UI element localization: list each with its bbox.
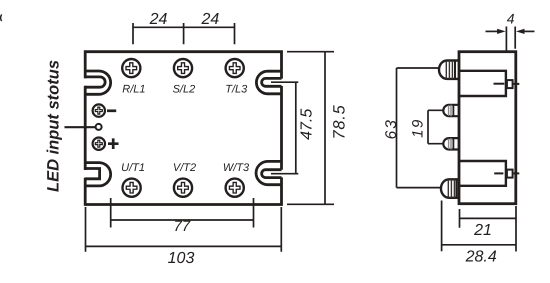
- front view body outline: [85, 52, 281, 205]
- svg-text:R/L1: R/L1: [122, 84, 145, 96]
- mounting slot bottom-right inner: [262, 170, 282, 178]
- svg-text:47.5: 47.5: [298, 109, 315, 140]
- dimension 28.4: [442, 201, 516, 252]
- svg-text:W/T3: W/T3: [223, 162, 250, 174]
- terminal screws front view: [122, 59, 244, 197]
- side terminal 1 (top large): [439, 61, 459, 79]
- mounting slot top-left outer: [85, 71, 110, 94]
- mounting slot bottom-left outer: [85, 163, 110, 186]
- input screw minus: [93, 104, 105, 116]
- dimension 77: [111, 198, 254, 228]
- input screw plus: [93, 138, 105, 150]
- dimension 24-24 top: [133, 23, 235, 44]
- dimension 47.5: [271, 82, 298, 174]
- plus sign: [108, 138, 119, 149]
- svg-text:S/L2: S/L2: [173, 84, 196, 96]
- screw U/T1: [123, 179, 141, 197]
- dimension 21: [460, 206, 517, 252]
- dimension 19: [428, 110, 443, 143]
- dimension 78.5: [287, 52, 334, 205]
- svg-text:24: 24: [149, 11, 168, 28]
- side view body: [459, 52, 516, 204]
- svg-text:78.5: 78.5: [330, 104, 348, 139]
- lower terminal cavity: [459, 161, 506, 186]
- upper screw shaft: [494, 80, 520, 88]
- svg-text:LED input stotus: LED input stotus: [45, 60, 63, 192]
- terminal labels top row: [122, 84, 248, 96]
- minus sign: [107, 109, 116, 112]
- svg-text:4: 4: [507, 10, 515, 26]
- svg-text:28.4: 28.4: [465, 248, 497, 265]
- svg-text:63: 63: [383, 118, 400, 139]
- mounting slot top-right inner: [262, 78, 282, 86]
- svg-text:19: 19: [409, 118, 426, 138]
- mounting slot bottom-right outer: [256, 161, 281, 184]
- svg-text:103: 103: [168, 250, 195, 267]
- svg-text:T/L3: T/L3: [225, 84, 248, 96]
- side terminal 3 (small): [443, 138, 459, 149]
- LED indicator: [96, 124, 102, 130]
- terminal labels bottom row: [121, 162, 250, 174]
- mounting slot top-left inner: [85, 77, 105, 87]
- screw V/T2: [174, 179, 192, 197]
- screw W/T3: [226, 179, 244, 197]
- mounting slot bottom-left inner: [85, 169, 99, 179]
- small scan artifact left margin: [1, 15, 2, 22]
- svg-text:24: 24: [201, 11, 220, 28]
- lower screw shaft: [494, 170, 519, 178]
- dimension 4 (with arrows): [486, 27, 535, 51]
- LED input terminal block: [65, 104, 119, 149]
- dimension 63: [397, 68, 442, 188]
- LED leader line: [65, 126, 96, 128]
- svg-text:21: 21: [473, 222, 492, 239]
- svg-text:U/T1: U/T1: [121, 162, 145, 174]
- screw S/L2: [174, 59, 192, 77]
- mounting slot top-right outer: [256, 71, 281, 94]
- svg-text:V/T2: V/T2: [173, 162, 196, 174]
- screw R/L1: [122, 59, 140, 77]
- screw T/L3: [226, 59, 244, 77]
- side terminal 2 (small): [443, 105, 459, 116]
- dimension 103: [86, 207, 282, 252]
- svg-text:77: 77: [173, 218, 190, 235]
- side terminal 4 (bottom large): [441, 179, 459, 198]
- upper terminal cavity: [459, 71, 506, 96]
